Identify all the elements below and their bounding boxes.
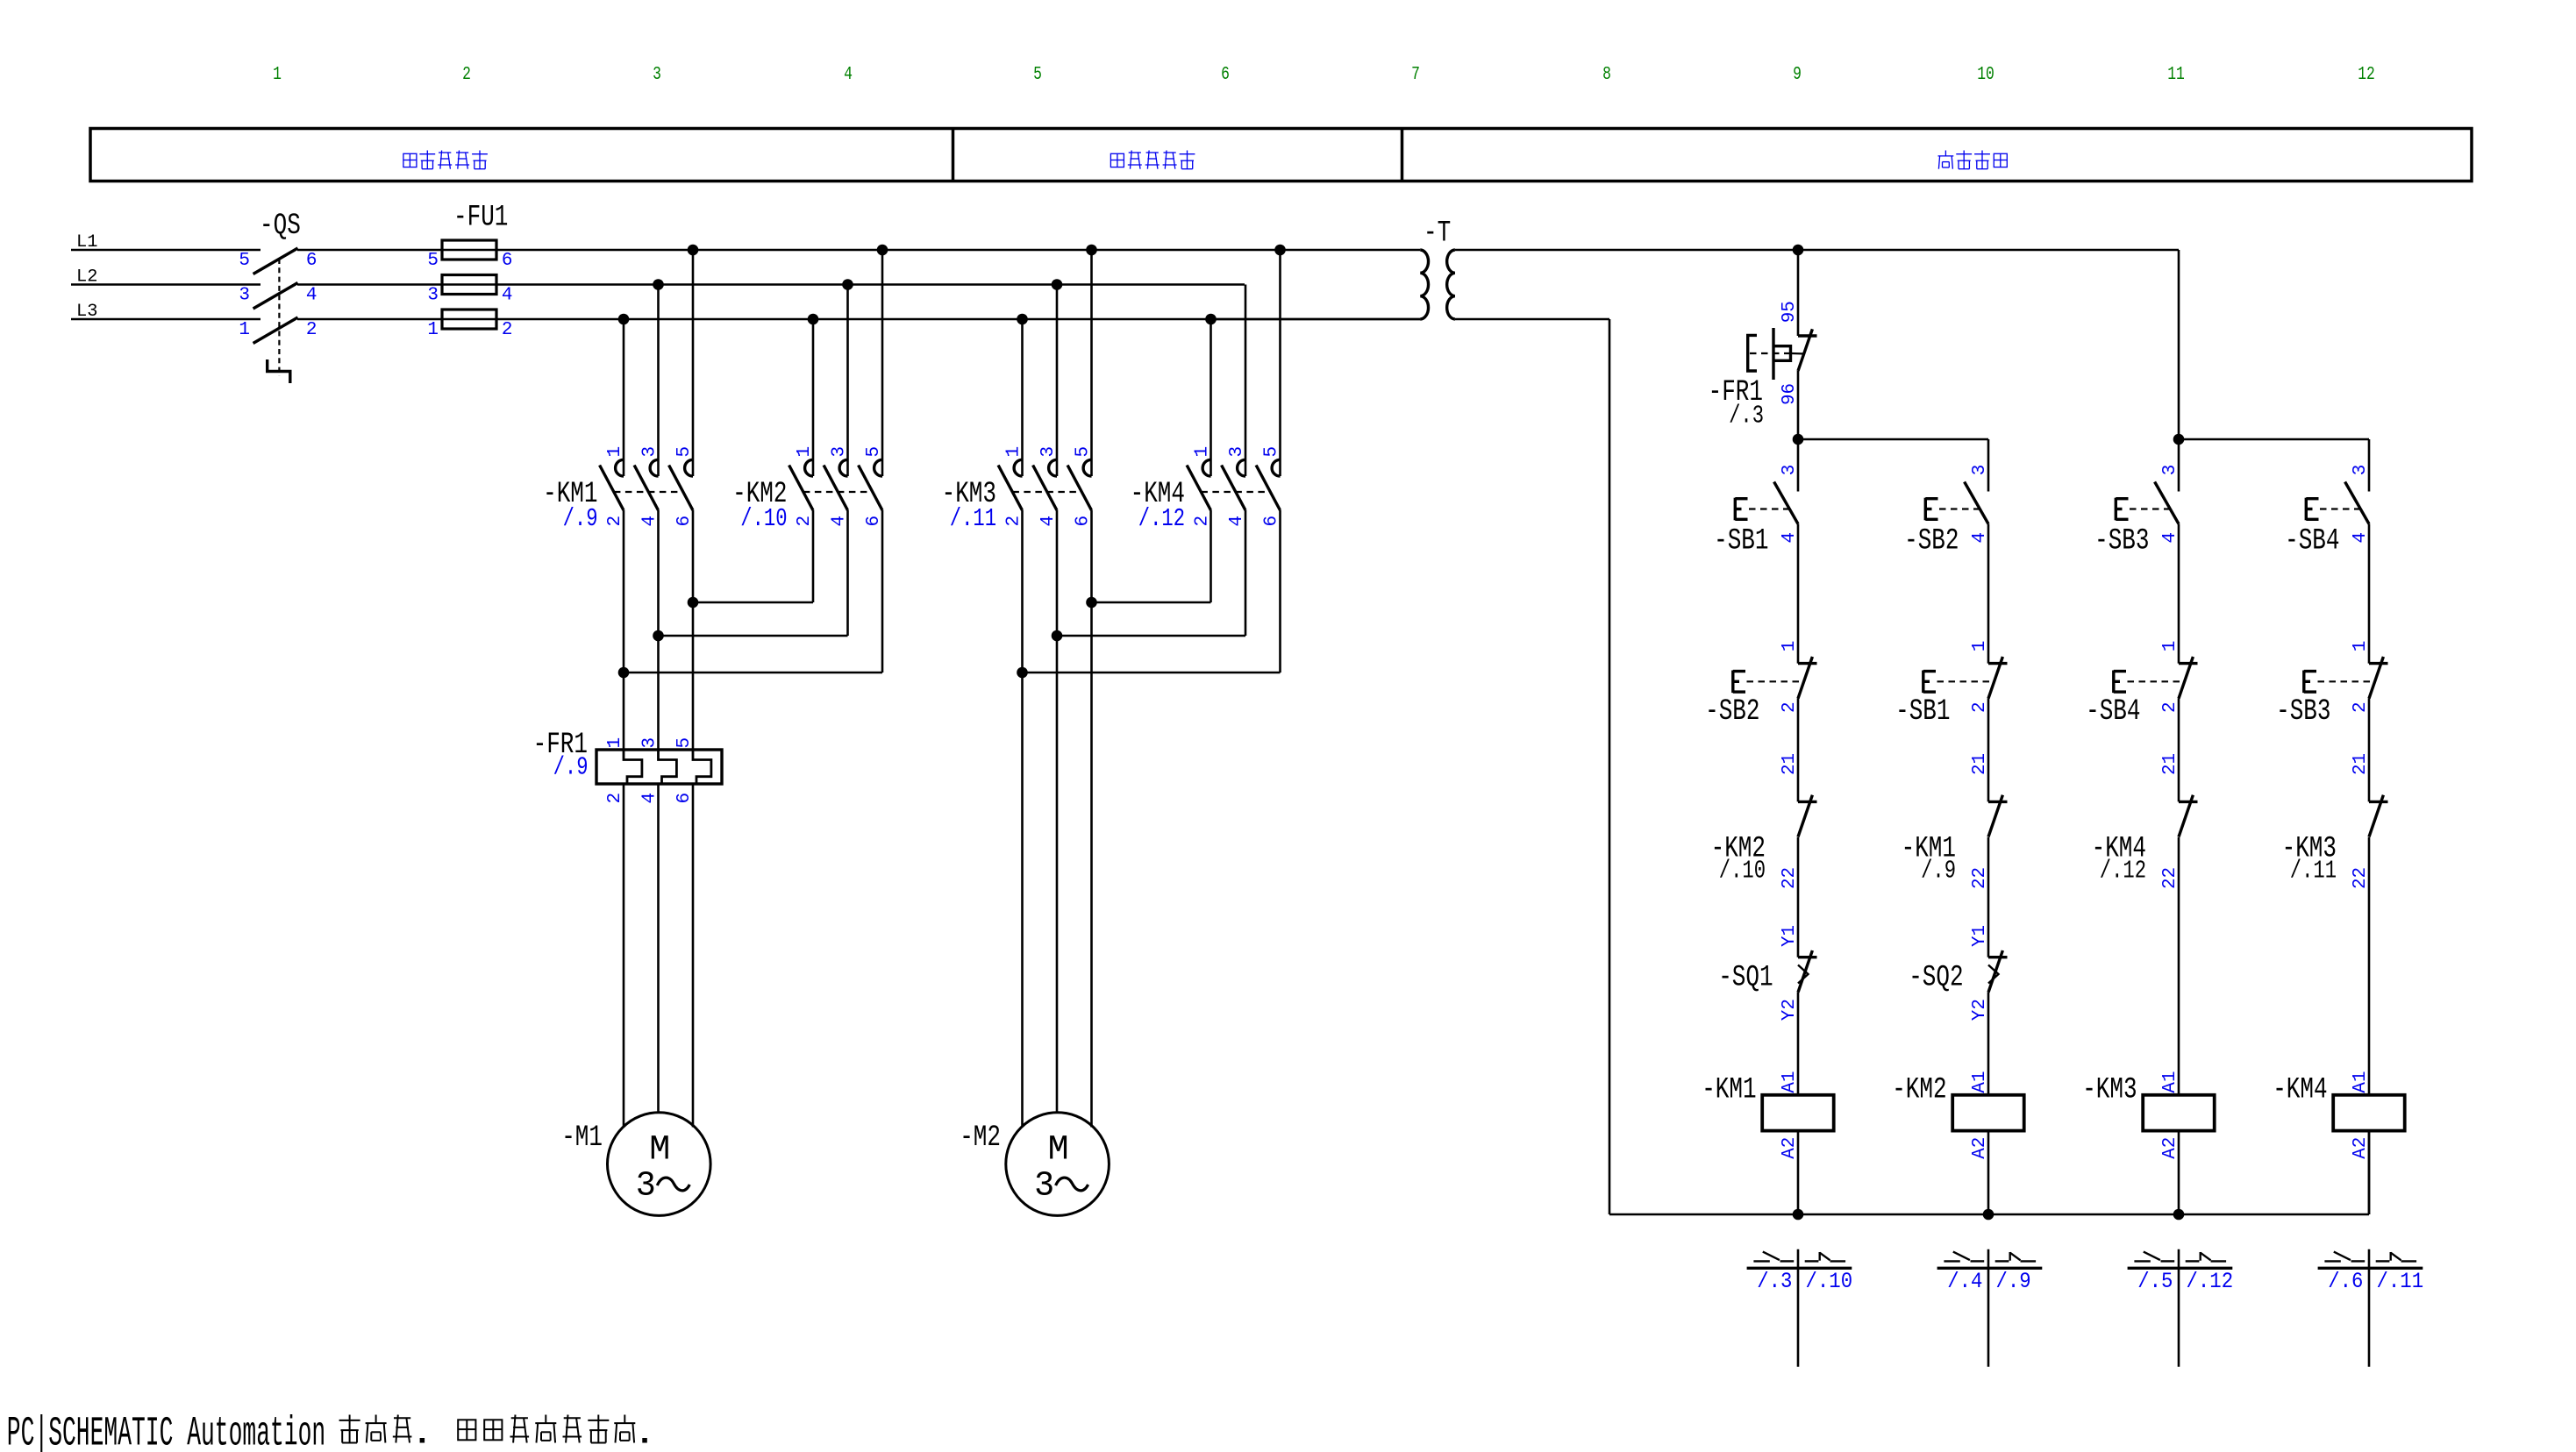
grid column number 9 — [1793, 65, 1802, 85]
contactor KM1 pin 5 — [674, 446, 695, 458]
fuse FU1 element on L1 — [442, 240, 496, 260]
fuse FU1 element on L2 — [442, 275, 496, 295]
wire T secondary top lead — [1455, 249, 2179, 252]
junction KM2 pole 1 tap — [808, 314, 819, 325]
wire coil -KM4 to bus — [2368, 1131, 2371, 1214]
contactor KM1 main contact pole 3 — [669, 459, 693, 510]
grid column number 11 — [2167, 65, 2185, 85]
cross-reference text /.10 — [1806, 1269, 1853, 1294]
contactor KM3 pin 1 — [1004, 446, 1024, 458]
svg-text:-SB4: -SB4 — [2086, 695, 2140, 729]
pushbutton -SB4 NO contact — [2306, 482, 2369, 524]
svg-text:Y1: Y1 — [1780, 925, 1800, 947]
svg-text:/.12: /.12 — [1138, 504, 1185, 533]
junction at KM1 pole1 y767 — [618, 667, 630, 679]
wire T secondary bottom lead — [1455, 318, 1609, 321]
contactor KM4 main contact pole 1 — [1187, 459, 1210, 510]
svg-text:4: 4 — [2351, 532, 2371, 544]
svg-text:21: 21 — [1970, 753, 1990, 775]
thermal overload FR1 NC contact reference /.3 — [1729, 402, 1764, 431]
footer text PC|SCHEMATIC Automation — [7, 1412, 325, 1452]
wire KM2 pole1 to KM1 pole3 link — [693, 510, 813, 602]
svg-text:-SB2: -SB2 — [1904, 525, 1959, 559]
svg-text:5: 5 — [239, 251, 250, 271]
svg-text:6: 6 — [1074, 516, 1094, 527]
motor M2 label — [960, 1121, 1001, 1155]
header divider 2 — [1401, 129, 1404, 181]
thermal overload FR1 cross-reference /.9 — [553, 753, 589, 782]
wire -SQ1 to coil -KM1 — [1797, 993, 1800, 1095]
grid column number 6 — [1221, 65, 1230, 85]
coil -KM1 pin A1 — [1780, 1071, 1800, 1093]
svg-text:M: M — [649, 1131, 670, 1171]
svg-text:/.11: /.11 — [2377, 1269, 2424, 1294]
junction tier1 col9 — [1793, 434, 1804, 445]
thermal overload FR1 pin 5 — [674, 737, 695, 749]
svg-text:-SB4: -SB4 — [2285, 525, 2339, 559]
disconnector QS label — [260, 210, 301, 243]
pushbutton -SB3 NO contact — [2116, 482, 2179, 524]
contactor KM2 linkage dashed line — [803, 491, 873, 493]
contactor KM1 pin 4 — [640, 516, 660, 527]
svg-text:PC|SCHEMATIC Automation: PC|SCHEMATIC Automation — [7, 1412, 325, 1452]
disconnector QS pin 6 — [306, 251, 318, 271]
pushbutton -SB4 pin 2 — [2160, 701, 2180, 713]
svg-text:21: 21 — [2160, 753, 2180, 775]
wire -KM3 to coil -KM4 — [2368, 837, 2371, 1095]
contactor KM1 label — [543, 478, 597, 511]
contactor KM1 main contact pole 2 — [634, 459, 658, 510]
coil -KM2 pin A1 — [1970, 1071, 1990, 1093]
contactor -KM2 NC interlock contact — [1798, 795, 1817, 837]
disconnector QS linkage dashed line — [278, 259, 280, 376]
wire col9 drop to SB1 — [1797, 439, 1800, 492]
grid column number 3 — [653, 65, 661, 85]
svg-text:-KM3: -KM3 — [2082, 1074, 2137, 1107]
pushbutton -SB3 NC label — [2276, 695, 2330, 729]
coil -KM3 label — [2082, 1074, 2137, 1107]
wire FR1 to M1 phase W — [692, 784, 695, 1128]
svg-text:3: 3 — [636, 1167, 656, 1206]
contactor -KM1 pin 22 — [1970, 867, 1990, 889]
grid column number 7 — [1411, 65, 1420, 85]
contactor -KM4 NC interlock contact — [2179, 795, 2198, 837]
contactor KM2 pin 4 — [830, 516, 850, 527]
disconnector QS pin 3 — [239, 286, 250, 306]
svg-text:4: 4 — [830, 516, 850, 527]
wire FR1 branch top — [1797, 250, 1800, 336]
motor M1 label — [561, 1121, 603, 1155]
wire coil -KM2 to bus — [1987, 1131, 1990, 1214]
coil -KM1 — [1762, 1095, 1834, 1131]
contactor KM3 main contact pole 1 — [998, 459, 1022, 510]
contactor KM2 pin 5 — [864, 446, 884, 458]
wire KM1 pole 1 to FR1 — [623, 510, 625, 750]
wire KM3 pole 2 drop — [1056, 285, 1059, 477]
thermal overload FR1 pin 6 — [674, 793, 695, 804]
contactor KM2 main contact pole 1 — [789, 459, 813, 510]
thermal overload FR1 heater elements — [596, 750, 722, 784]
svg-text:-SB3: -SB3 — [2276, 695, 2330, 729]
contactor KM3 label — [942, 478, 996, 511]
junction KM2 pole 3 tap — [877, 245, 888, 256]
contactor KM4 pin 1 — [1193, 446, 1213, 458]
svg-text:3: 3 — [1227, 446, 1247, 458]
coil -KM2 — [1952, 1095, 2024, 1131]
svg-text:1: 1 — [1004, 446, 1024, 458]
wire -SB3 to -KM3 interlock — [2368, 698, 2371, 801]
wire KM4 pole 1 drop — [1210, 319, 1212, 476]
junction KM1 pole 3 tap — [688, 245, 699, 256]
disconnector QS pole L3 blade — [253, 317, 298, 344]
svg-text:/.12: /.12 — [2100, 857, 2146, 886]
wire coil -KM3 to bus — [2178, 1131, 2180, 1214]
junction KM3 pole 3 tap — [1086, 245, 1097, 256]
contactor KM2 main contact pole 2 — [824, 459, 847, 510]
cross-reference mirror for coil at column 2050 — [1747, 1249, 1852, 1367]
contactor KM1 cross-reference /.9 — [563, 504, 598, 533]
contactor -KM3 pin 22 — [2351, 867, 2371, 889]
contactor KM2 pin 1 — [795, 446, 815, 458]
pushbutton -SB2 pin 2 — [1780, 701, 1800, 713]
cross-reference text /.9 — [1996, 1269, 2031, 1294]
junction bus col9 — [1793, 1209, 1804, 1221]
contactor -KM1 NC interlock contact — [1988, 795, 2008, 837]
net label L3 — [76, 302, 97, 322]
contactor -KM2 pin 21 — [1780, 753, 1800, 775]
contactor -KM1 pin 21 — [1970, 753, 1990, 775]
pushbutton -SB4 label — [2285, 525, 2339, 559]
svg-text:/.9: /.9 — [563, 504, 598, 533]
svg-text:1: 1 — [1970, 641, 1990, 652]
thermal overload FR1 pin 1 — [605, 737, 625, 749]
contactor KM3 pin 2 — [1004, 516, 1024, 527]
junction KM3 pole 1 tap — [1017, 314, 1028, 325]
svg-text:1: 1 — [427, 320, 439, 340]
grid column number 4 — [844, 65, 853, 85]
pushbutton -SB2 label — [1904, 525, 1959, 559]
svg-text:/.9: /.9 — [1921, 857, 1956, 886]
header title box — [90, 129, 2472, 181]
disconnector QS pin 4 — [306, 286, 318, 306]
contactor KM2 main contact pole 3 — [859, 459, 882, 510]
contactor KM3 pin 5 — [1074, 446, 1094, 458]
cross-reference text /.4 — [1947, 1269, 1982, 1294]
disconnector QS handle — [268, 359, 290, 383]
svg-text:-SQ1: -SQ1 — [1718, 962, 1773, 995]
svg-text:1: 1 — [795, 446, 815, 458]
svg-text:3: 3 — [640, 446, 660, 458]
svg-text:/.9: /.9 — [553, 753, 589, 782]
svg-text:3: 3 — [1970, 465, 1990, 476]
svg-text:3: 3 — [2351, 465, 2371, 476]
pushbutton -SB4 NC label — [2086, 695, 2140, 729]
wire KM2 pole2 to KM1 pole2 link — [659, 510, 848, 636]
pushbutton -SB4 pin 1 — [2160, 641, 2180, 652]
svg-text:/.3: /.3 — [1757, 1269, 1792, 1294]
limit switch -SQ2 pin Y2 — [1970, 999, 1990, 1021]
junction KM4 pole 1 tap — [1205, 314, 1217, 325]
svg-text:-M2: -M2 — [960, 1121, 1001, 1155]
header divider 1 — [952, 129, 955, 181]
svg-text:A2: A2 — [2351, 1137, 2371, 1159]
fuse FU1 pin 2 — [502, 320, 513, 340]
wire FR1 to M1 phase U — [623, 784, 625, 1128]
svg-text:5: 5 — [674, 737, 695, 749]
svg-text:3: 3 — [653, 65, 661, 85]
svg-text:/.6: /.6 — [2328, 1269, 2363, 1294]
svg-text:11: 11 — [2167, 65, 2185, 85]
svg-text:2: 2 — [502, 320, 513, 340]
pushbutton -SB2 NC contact — [1733, 657, 1817, 699]
svg-text:1: 1 — [2160, 641, 2180, 652]
svg-text:21: 21 — [2351, 753, 2371, 775]
wire L2 FU1 to KM4 tap — [442, 283, 1245, 286]
disconnector QS pin 5 — [239, 251, 250, 271]
svg-text:6: 6 — [674, 516, 695, 527]
contactor KM4 pin 4 — [1227, 516, 1247, 527]
svg-text:22: 22 — [1970, 867, 1990, 889]
limit switch -SQ1 NC contact — [1798, 950, 1817, 993]
svg-text:4: 4 — [844, 65, 853, 85]
pushbutton -SB2 NC label — [1705, 695, 1759, 729]
svg-text:12: 12 — [2358, 65, 2375, 85]
svg-text:-QS: -QS — [260, 210, 301, 243]
svg-text:3: 3 — [2160, 465, 2180, 476]
wire KM1 pole 3 drop — [692, 250, 695, 476]
wire tier1 col11 to col12 — [2179, 438, 2369, 441]
svg-text:1: 1 — [2351, 641, 2371, 652]
svg-text:-SQ2: -SQ2 — [1909, 962, 1963, 995]
svg-text:A1: A1 — [1780, 1071, 1800, 1093]
contactor -KM4 NC interlock reference /.12 — [2100, 857, 2146, 886]
wire L1 FU1 to transformer — [442, 249, 1420, 252]
junction at KM1 pole3 y687 — [688, 597, 699, 609]
cross-reference text /.3 — [1757, 1269, 1792, 1294]
wire KM4 pole3 to KM3 pole1 link — [1023, 510, 1281, 673]
coil -KM4 — [2333, 1095, 2405, 1131]
svg-text:2: 2 — [1780, 701, 1800, 713]
svg-text:Y2: Y2 — [1780, 999, 1800, 1021]
svg-text:2: 2 — [2160, 701, 2180, 713]
svg-text:/.10: /.10 — [1806, 1269, 1853, 1294]
thermal overload FR1 pin 95 — [1780, 301, 1800, 323]
svg-text:2: 2 — [605, 793, 625, 804]
thermal overload FR1 pin 96 — [1780, 383, 1800, 405]
coil -KM1 label — [1702, 1074, 1756, 1107]
contactor KM3 pin 3 — [1038, 446, 1059, 458]
svg-text:3: 3 — [1780, 465, 1800, 476]
pushbutton -SB3 pin 4 — [2160, 532, 2180, 544]
contactor KM2 cross-reference /.10 — [740, 504, 787, 533]
svg-text:/.9: /.9 — [1996, 1269, 2031, 1294]
contactor -KM2 pin 22 — [1780, 867, 1800, 889]
wire -KM1 to -SQ2 — [1987, 837, 1990, 957]
pushbutton -SB1 pin 3 — [1780, 465, 1800, 476]
junction at KM1 pole2 y725 — [653, 630, 664, 642]
wire KM3 pole 1 drop — [1021, 319, 1024, 476]
wire FR1 to M1 phase V — [657, 784, 660, 1113]
grid column number 10 — [1977, 65, 1994, 85]
svg-text:3: 3 — [1038, 446, 1059, 458]
svg-text:2: 2 — [2351, 701, 2371, 713]
svg-text:1: 1 — [605, 446, 625, 458]
limit switch -SQ2 pin Y1 — [1970, 925, 1990, 947]
pushbutton -SB4 pin 3 — [2351, 465, 2371, 476]
header cell text 行走电动机 (travel motor) — [1110, 151, 1195, 169]
contactor KM4 main contact pole 3 — [1256, 459, 1280, 510]
contactor -KM2 NC interlock label — [1711, 832, 1766, 865]
coil -KM2 label — [1892, 1074, 1946, 1107]
wire KM1 pole 2 to FR1 — [657, 510, 660, 750]
coil -KM3 — [2143, 1095, 2215, 1131]
svg-text:-KM2: -KM2 — [1892, 1074, 1946, 1107]
wire -SB1 to -KM1 interlock — [1987, 698, 1990, 801]
svg-text:3: 3 — [427, 286, 439, 306]
contactor -KM3 pin 21 — [2351, 753, 2371, 775]
net label L1 — [76, 232, 97, 253]
pushbutton -SB1 pin 4 — [1780, 532, 1800, 544]
pushbutton -SB3 pin 3 — [2160, 465, 2180, 476]
wire L3 FU1 to transformer — [442, 318, 1420, 321]
disconnector QS pole L2 blade — [253, 283, 298, 310]
contactor KM4 label — [1131, 478, 1185, 511]
wire -SB2 to -SB1 — [1987, 524, 1990, 664]
pushbutton -SB4 NC contact — [2114, 657, 2198, 699]
pushbutton -SB1 pin 1 — [1970, 641, 1990, 652]
svg-text:-KM4: -KM4 — [2273, 1074, 2327, 1107]
wire control left rail drop — [1609, 319, 1611, 1214]
wire KM3 pole2 to M2 — [1056, 510, 1059, 1113]
wire T primary bottom lead — [1211, 318, 1421, 321]
contactor KM2 label — [732, 478, 787, 511]
cross-reference text /.6 — [2328, 1269, 2363, 1294]
contactor KM3 linkage dashed line — [1012, 491, 1081, 493]
contactor KM4 linkage dashed line — [1201, 491, 1270, 493]
contactor -KM3 NC interlock reference /.11 — [2290, 857, 2337, 886]
svg-text:3: 3 — [640, 737, 660, 749]
coil -KM2 pin A2 — [1970, 1137, 1990, 1159]
fuse FU1 pin 1 — [427, 320, 439, 340]
wire control bottom bus — [1609, 1131, 2369, 1214]
contactor -KM4 pin 22 — [2160, 867, 2180, 889]
svg-text:5: 5 — [674, 446, 695, 458]
svg-text:/.5: /.5 — [2137, 1269, 2173, 1294]
svg-text:A2: A2 — [2160, 1137, 2180, 1159]
svg-text:A2: A2 — [1780, 1137, 1800, 1159]
junction KM2 pole 2 tap — [842, 279, 853, 290]
svg-text:4: 4 — [1780, 532, 1800, 544]
wire KM1 pole 1 drop — [623, 319, 625, 476]
svg-text:-SB1: -SB1 — [1714, 525, 1768, 559]
footer text 学生版. — [339, 1415, 425, 1443]
coil -KM3 pin A1 — [2160, 1071, 2180, 1093]
wire KM2 pole3 to KM1 pole1 link — [624, 510, 882, 673]
junction control top at FR1 branch — [1793, 245, 1804, 256]
cross-reference mirror for coil at column 2484 — [2128, 1249, 2233, 1367]
pushbutton -SB1 NC label — [1895, 695, 1950, 729]
svg-text:96: 96 — [1780, 383, 1800, 405]
svg-text:-SB3: -SB3 — [2094, 525, 2149, 559]
wire KM3 pole3 to M2 — [1090, 510, 1093, 1128]
wire KM4 pole 3 drop — [1279, 250, 1281, 476]
contactor -KM4 pin 21 — [2160, 753, 2180, 775]
svg-text:/.4: /.4 — [1947, 1269, 1982, 1294]
svg-text:2: 2 — [306, 320, 318, 340]
limit switch -SQ2 NC contact — [1988, 950, 2008, 993]
svg-text:2: 2 — [1193, 516, 1213, 527]
motor M2 — [1006, 1113, 1110, 1216]
wire -SB2 to -KM2 interlock — [1797, 698, 1800, 801]
coil -KM4 label — [2273, 1074, 2327, 1107]
svg-text:/.10: /.10 — [1719, 857, 1766, 886]
coil -KM4 pin A2 — [2351, 1137, 2371, 1159]
wire -KM4 to coil -KM3 — [2178, 837, 2180, 1095]
wire KM3 pole1 to M2 — [1021, 510, 1024, 1128]
wire -KM2 to -SQ1 — [1797, 837, 1800, 957]
svg-text:5: 5 — [864, 446, 884, 458]
limit switch -SQ2 label — [1909, 962, 1963, 995]
svg-text:22: 22 — [1780, 867, 1800, 889]
svg-text:6: 6 — [1221, 65, 1230, 85]
fuse FU1 pin 6 — [502, 251, 513, 271]
pushbutton -SB2 NO contact — [1925, 482, 1988, 524]
svg-text:3: 3 — [830, 446, 850, 458]
junction KM1 pole 1 tap — [618, 314, 630, 325]
svg-text:1: 1 — [273, 65, 282, 85]
fuse FU1 label — [453, 202, 508, 235]
transformer T primary winding — [1420, 250, 1428, 319]
wire L1 left segment — [71, 249, 260, 252]
svg-text:4: 4 — [306, 286, 318, 306]
transformer T secondary winding — [1447, 250, 1455, 319]
pushbutton -SB3 label — [2094, 525, 2149, 559]
contactor KM1 pin 6 — [674, 516, 695, 527]
pushbutton -SB1 pin 2 — [1970, 701, 1990, 713]
svg-text:8: 8 — [1602, 65, 1611, 85]
svg-text:9: 9 — [1793, 65, 1802, 85]
svg-text:6: 6 — [502, 251, 513, 271]
contactor -KM3 NC interlock contact — [2369, 795, 2388, 837]
svg-text:Y2: Y2 — [1970, 999, 1990, 1021]
svg-text:6: 6 — [674, 793, 695, 804]
contactor -KM1 NC interlock label — [1902, 832, 1956, 865]
junction at KM3 pole1 y767 — [1017, 667, 1028, 679]
svg-text:-T: -T — [1424, 217, 1451, 251]
contactor KM3 main contact pole 3 — [1067, 459, 1091, 510]
wire control right rail drop — [2178, 250, 2180, 439]
contactor -KM4 NC interlock label — [2092, 832, 2146, 865]
svg-text:4: 4 — [502, 286, 513, 306]
svg-text:3: 3 — [1034, 1167, 1054, 1206]
svg-text:22: 22 — [2351, 867, 2371, 889]
wire L2 left segment — [71, 283, 260, 286]
svg-text:4: 4 — [1038, 516, 1059, 527]
motor M1 — [608, 1113, 711, 1216]
pushbutton -SB3 pin 2 — [2351, 701, 2371, 713]
cross-reference text /.5 — [2137, 1269, 2173, 1294]
svg-text:1: 1 — [239, 320, 250, 340]
contactor -KM2 NC interlock reference /.10 — [1719, 857, 1766, 886]
contactor KM2 pin 2 — [795, 516, 815, 527]
disconnector QS pole L1 blade — [253, 248, 298, 274]
limit switch -SQ1 pin Y1 — [1780, 925, 1800, 947]
svg-text:-KM1: -KM1 — [1702, 1074, 1756, 1107]
svg-text:1: 1 — [605, 737, 625, 749]
svg-text:22: 22 — [2160, 867, 2180, 889]
node KM4 pole 2 corner — [0, 0, 1, 1]
svg-text:3: 3 — [239, 286, 250, 306]
